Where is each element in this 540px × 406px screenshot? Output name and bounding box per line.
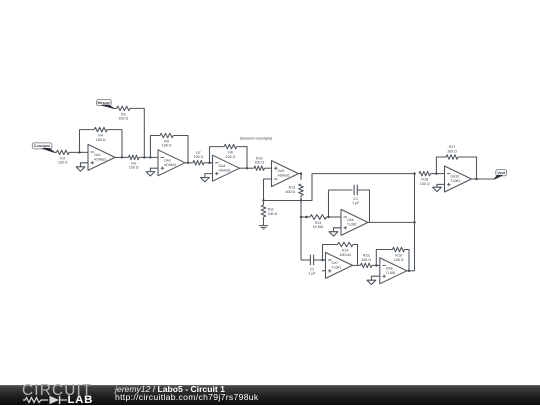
svg-text:100 Ω: 100 Ω xyxy=(361,258,371,262)
svg-text:100 Ω: 100 Ω xyxy=(447,149,457,153)
svg-text:OA8: OA8 xyxy=(386,266,393,270)
svg-text:AD8691: AD8691 xyxy=(278,174,290,178)
svg-text:100 Ω: 100 Ω xyxy=(394,258,404,262)
svg-text:10 MΩ: 10 MΩ xyxy=(313,225,324,229)
svg-text:TL081: TL081 xyxy=(347,223,357,227)
svg-text:100 Ω: 100 Ω xyxy=(268,212,278,216)
svg-text:100 Ω: 100 Ω xyxy=(226,155,236,159)
svg-text:OA10: OA10 xyxy=(451,175,460,179)
svg-text:100 Ω: 100 Ω xyxy=(420,182,430,186)
svg-text:100 Ω: 100 Ω xyxy=(118,117,128,121)
svg-text:1 μF: 1 μF xyxy=(352,201,360,205)
svg-text:AD8691: AD8691 xyxy=(219,168,231,172)
svg-text:OA5: OA5 xyxy=(278,169,285,173)
svg-text:TL081: TL081 xyxy=(386,271,396,275)
svg-text:(mesure+consigne): (mesure+consigne) xyxy=(240,137,273,141)
svg-text:R11: R11 xyxy=(268,207,274,211)
svg-text:100 Ω: 100 Ω xyxy=(162,144,172,148)
svg-text:OA4: OA4 xyxy=(219,164,226,168)
svg-text:OA6: OA6 xyxy=(347,218,354,222)
svg-text:AD8691: AD8691 xyxy=(164,163,176,167)
svg-text:100 kΩ: 100 kΩ xyxy=(339,253,351,257)
svg-text:AD8691: AD8691 xyxy=(94,158,106,162)
svg-text:100 Ω: 100 Ω xyxy=(96,138,106,142)
svg-text:R12: R12 xyxy=(289,186,296,190)
svg-text:100 Ω: 100 Ω xyxy=(58,161,68,165)
svg-text:OA2: OA2 xyxy=(94,153,101,157)
svg-text:OA7: OA7 xyxy=(332,261,339,265)
svg-text:100 Ω: 100 Ω xyxy=(129,166,139,170)
svg-text:1 μF: 1 μF xyxy=(308,272,316,276)
svg-text:400 Ω: 400 Ω xyxy=(286,190,296,194)
svg-text:TL081: TL081 xyxy=(332,266,342,270)
svg-text:TL081: TL081 xyxy=(451,179,461,183)
svg-text:Vout: Vout xyxy=(497,171,506,175)
svg-text:Consigne: Consigne xyxy=(34,144,50,148)
svg-text:100 Ω: 100 Ω xyxy=(194,155,204,159)
svg-text:OA3: OA3 xyxy=(164,158,171,162)
svg-text:Mesure: Mesure xyxy=(98,101,111,105)
svg-text:100 Ω: 100 Ω xyxy=(254,161,264,165)
